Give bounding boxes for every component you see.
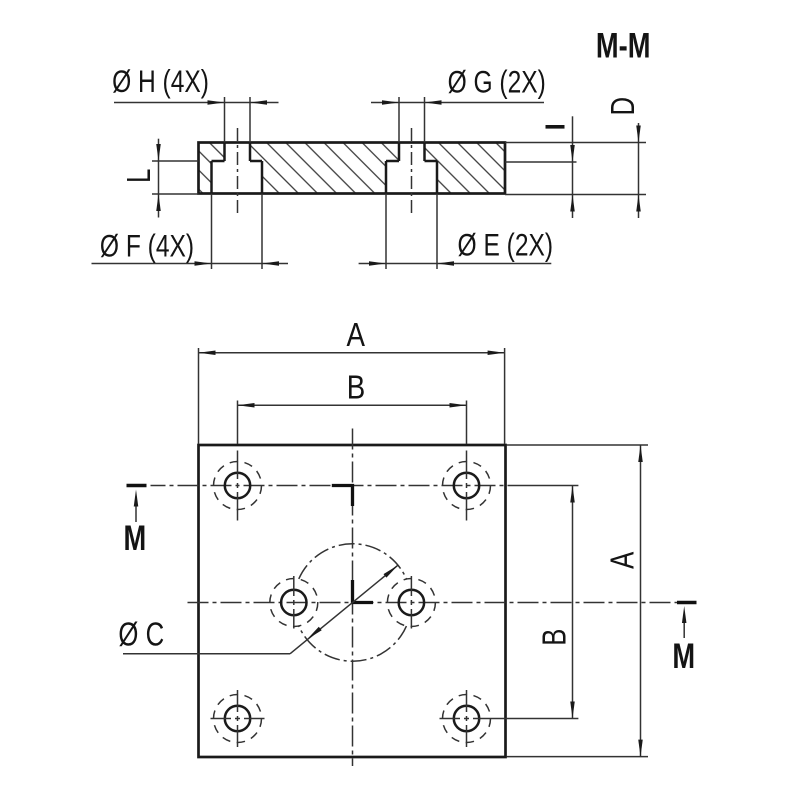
centerline right hole section bbox=[411, 128, 413, 213]
dim D line and arrows bbox=[636, 123, 641, 218]
plate bottom edge extension right bbox=[505, 194, 646, 196]
dim OF extension lines bbox=[212, 194, 263, 270]
vertical centerline bbox=[352, 429, 354, 767]
label I rotated bbox=[546, 125, 565, 129]
section chain line middle row bbox=[188, 602, 678, 604]
svg-text:D: D bbox=[605, 97, 642, 116]
svg-text:Ø F (4X): Ø F (4X) bbox=[100, 228, 194, 264]
hole top-right bbox=[443, 451, 491, 521]
section chain line top row bbox=[151, 485, 513, 487]
hole middle-left bbox=[270, 576, 318, 629]
hole H left bore edges bbox=[212, 143, 263, 194]
plate section outline bbox=[199, 143, 506, 194]
dim OE line and arrows bbox=[359, 261, 552, 266]
hole middle-right bbox=[387, 576, 435, 629]
svg-text:B: B bbox=[347, 369, 365, 406]
svg-text:Ø H (4X): Ø H (4X) bbox=[112, 63, 209, 99]
plate top edge extension right bbox=[505, 142, 646, 144]
dim A right extension lines bbox=[507, 445, 649, 757]
hole bottom-right bbox=[440, 690, 579, 747]
hole top-left bbox=[214, 451, 262, 521]
dim B top line and arrows bbox=[238, 403, 467, 408]
svg-text:B: B bbox=[537, 629, 574, 646]
plate section hatched body bbox=[199, 143, 506, 194]
dim B right line and arrows bbox=[570, 486, 575, 719]
hole G right bore edges bbox=[386, 143, 437, 194]
centerline left hole section bbox=[237, 128, 239, 213]
dim A top extension lines bbox=[199, 348, 505, 444]
dim OE extension lines bbox=[386, 194, 437, 270]
svg-text:Ø C: Ø C bbox=[118, 617, 164, 654]
dim L line and arrows bbox=[156, 139, 161, 218]
hole left counterbore white cut bbox=[212, 143, 263, 194]
dim OH extension lines bbox=[225, 97, 251, 143]
extension top-right hole to B dim bbox=[512, 485, 578, 487]
section marker M right thick bar bbox=[677, 601, 697, 604]
svg-text:M: M bbox=[672, 637, 695, 676]
dim OH line and arrows bbox=[114, 100, 279, 105]
dim OG line and arrows bbox=[371, 100, 544, 105]
dim L extension lines bbox=[152, 161, 199, 194]
svg-text:M-M: M-M bbox=[596, 26, 651, 65]
svg-text:A: A bbox=[605, 551, 642, 568]
dim OG extension lines bbox=[399, 97, 425, 143]
section marker M left thick bar bbox=[127, 484, 147, 487]
svg-text:A: A bbox=[347, 317, 366, 354]
svg-text:M: M bbox=[123, 519, 146, 558]
dim B top extension lines bbox=[238, 401, 467, 445]
hole right counterbore white cut bbox=[386, 143, 437, 194]
svg-text:Ø E (2X): Ø E (2X) bbox=[458, 227, 554, 263]
section marker M left arrow bbox=[134, 490, 139, 523]
section marker M right arrow bbox=[682, 606, 687, 638]
dim OC leader bbox=[123, 565, 398, 654]
dim I extension line bbox=[505, 161, 577, 163]
dim I line and arrows bbox=[570, 116, 575, 218]
section jog corner center bbox=[353, 580, 374, 603]
plan plate outline bbox=[199, 445, 506, 757]
hole bottom-left bbox=[211, 690, 265, 747]
svg-text:Ø G (2X): Ø G (2X) bbox=[448, 64, 546, 100]
big bolt circle chain bbox=[299, 626, 407, 661]
dim OF line and arrows bbox=[92, 261, 289, 266]
dim A top line and arrows bbox=[199, 351, 505, 356]
section jog corner top bbox=[332, 486, 353, 507]
dim A right line and arrows bbox=[638, 445, 643, 757]
svg-text:L: L bbox=[121, 169, 158, 183]
